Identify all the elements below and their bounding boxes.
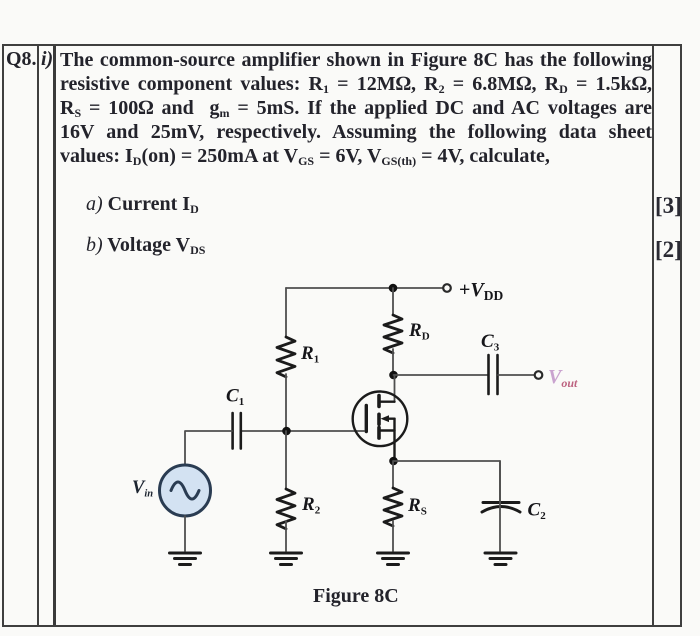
Q1 channel segment (source): [377, 428, 381, 439]
wire gate lead from C1 to gate: [241, 430, 364, 432]
Q1 channel segment (substrate): [377, 414, 381, 424]
Q1 internal source wire: [393, 419, 395, 461]
node drain junction: [389, 371, 398, 380]
ground C2: [485, 553, 516, 565]
Q1 channel segment (drain): [377, 396, 381, 407]
wire source node to C2: [394, 461, 501, 502]
svg-text:R1: R1: [300, 343, 319, 366]
source Vin circle: [160, 465, 211, 516]
resistor RS: [384, 488, 402, 526]
question text: [60, 48, 652, 72]
wire RD to drain node: [392, 349, 394, 375]
Q1 gate electrode bar: [365, 406, 368, 432]
Q1 source stub: [381, 429, 395, 431]
node source junction: [389, 457, 398, 466]
svg-text:C1: C1: [226, 386, 244, 409]
wire R2 bottom lead: [285, 521, 287, 551]
ground RS: [378, 553, 409, 565]
capacitor C2: [482, 503, 520, 513]
svg-text:R2: R2: [301, 494, 321, 517]
resistor R2: [277, 489, 295, 529]
divider after i) cell: [53, 46, 56, 625]
node VDD rail junction: [389, 284, 398, 293]
wire VDD to RD: [392, 288, 394, 315]
resistor RD: [384, 315, 402, 353]
marks [3]: [655, 193, 681, 219]
wire RS bottom lead: [392, 521, 394, 551]
terminal Vout open circle: [535, 371, 543, 379]
part a: [86, 193, 199, 216]
divider after Q8 cell: [37, 46, 39, 625]
wire R2 top lead: [285, 431, 287, 489]
cell label Q8.: [6, 48, 37, 71]
marks [2]: [655, 237, 681, 263]
Q1 body circle: [353, 392, 408, 447]
resistor R1: [277, 337, 295, 377]
wire top VDD rail: [286, 287, 443, 289]
node gate bias junction: [282, 427, 291, 436]
divider before marks column: [652, 46, 654, 625]
Q1 substrate arrowhead: [381, 415, 390, 422]
wire R1 top lead: [285, 288, 287, 337]
capacitor C3: [489, 355, 498, 394]
wire Vin to C1: [185, 431, 232, 465]
svg-text:Vout: Vout: [548, 366, 578, 390]
Q1 drain stub: [381, 401, 395, 403]
wire C2 bottom lead: [499, 461, 501, 551]
svg-text:Vin: Vin: [132, 478, 153, 500]
terminal +VDD open circle: [443, 284, 451, 292]
cell label i): [41, 48, 53, 71]
Q1 substrate arrow line: [386, 418, 395, 420]
source Vin sine wave: [171, 482, 199, 499]
wire source to RS: [392, 461, 394, 488]
transistor Q1 (n-channel E-MOSFET): [353, 392, 408, 462]
wire C3 to Vout: [498, 374, 534, 376]
wire R1 bottom lead: [285, 374, 287, 431]
wire drain lead into MOSFET: [394, 375, 396, 402]
wire Vin bottom lead: [184, 516, 186, 551]
svg-text:C2: C2: [528, 500, 547, 523]
svg-text:Figure 8C: Figure 8C: [313, 585, 399, 607]
svg-text:RD: RD: [408, 320, 430, 343]
svg-text:+VDD: +VDD: [459, 279, 503, 303]
wire drain node to C3: [394, 374, 489, 376]
part b: [86, 234, 205, 257]
ground R2: [271, 553, 302, 565]
svg-text:C3: C3: [481, 331, 500, 354]
capacitor C1: [233, 413, 241, 449]
ground Vin: [170, 553, 201, 565]
svg-text:RS: RS: [407, 495, 427, 518]
